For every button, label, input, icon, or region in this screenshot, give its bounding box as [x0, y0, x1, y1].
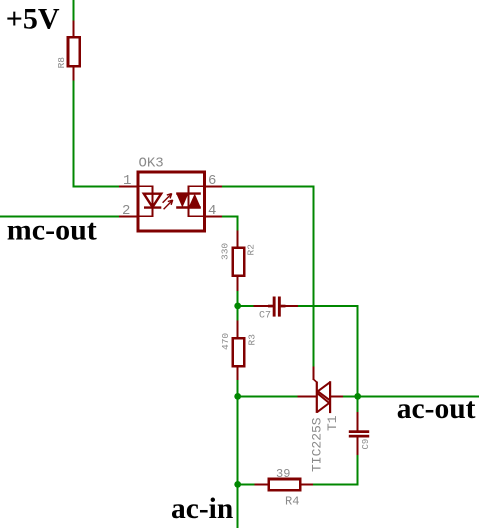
- svg-text:ac-in: ac-in: [171, 493, 233, 525]
- svg-text:T1: T1: [325, 415, 340, 431]
- svg-text:39: 39: [276, 467, 290, 481]
- svg-text:2: 2: [122, 203, 130, 219]
- svg-text:6: 6: [208, 173, 216, 189]
- svg-text:R4: R4: [285, 495, 299, 509]
- svg-text:ac-out: ac-out: [397, 393, 476, 425]
- svg-text:OK3: OK3: [139, 156, 164, 172]
- svg-text:R2: R2: [245, 244, 256, 256]
- svg-text:mc-out: mc-out: [7, 214, 97, 247]
- svg-text:C9: C9: [361, 439, 371, 450]
- svg-text:R3: R3: [246, 334, 257, 346]
- svg-text:470: 470: [220, 333, 231, 350]
- svg-text:+5V: +5V: [6, 3, 60, 36]
- svg-text:R8: R8: [56, 57, 67, 69]
- svg-text:330: 330: [219, 243, 230, 260]
- svg-text:4: 4: [208, 203, 216, 219]
- svg-text:1: 1: [123, 173, 131, 189]
- svg-text:TIC225S: TIC225S: [310, 417, 325, 472]
- svg-text:C7: C7: [259, 311, 271, 322]
